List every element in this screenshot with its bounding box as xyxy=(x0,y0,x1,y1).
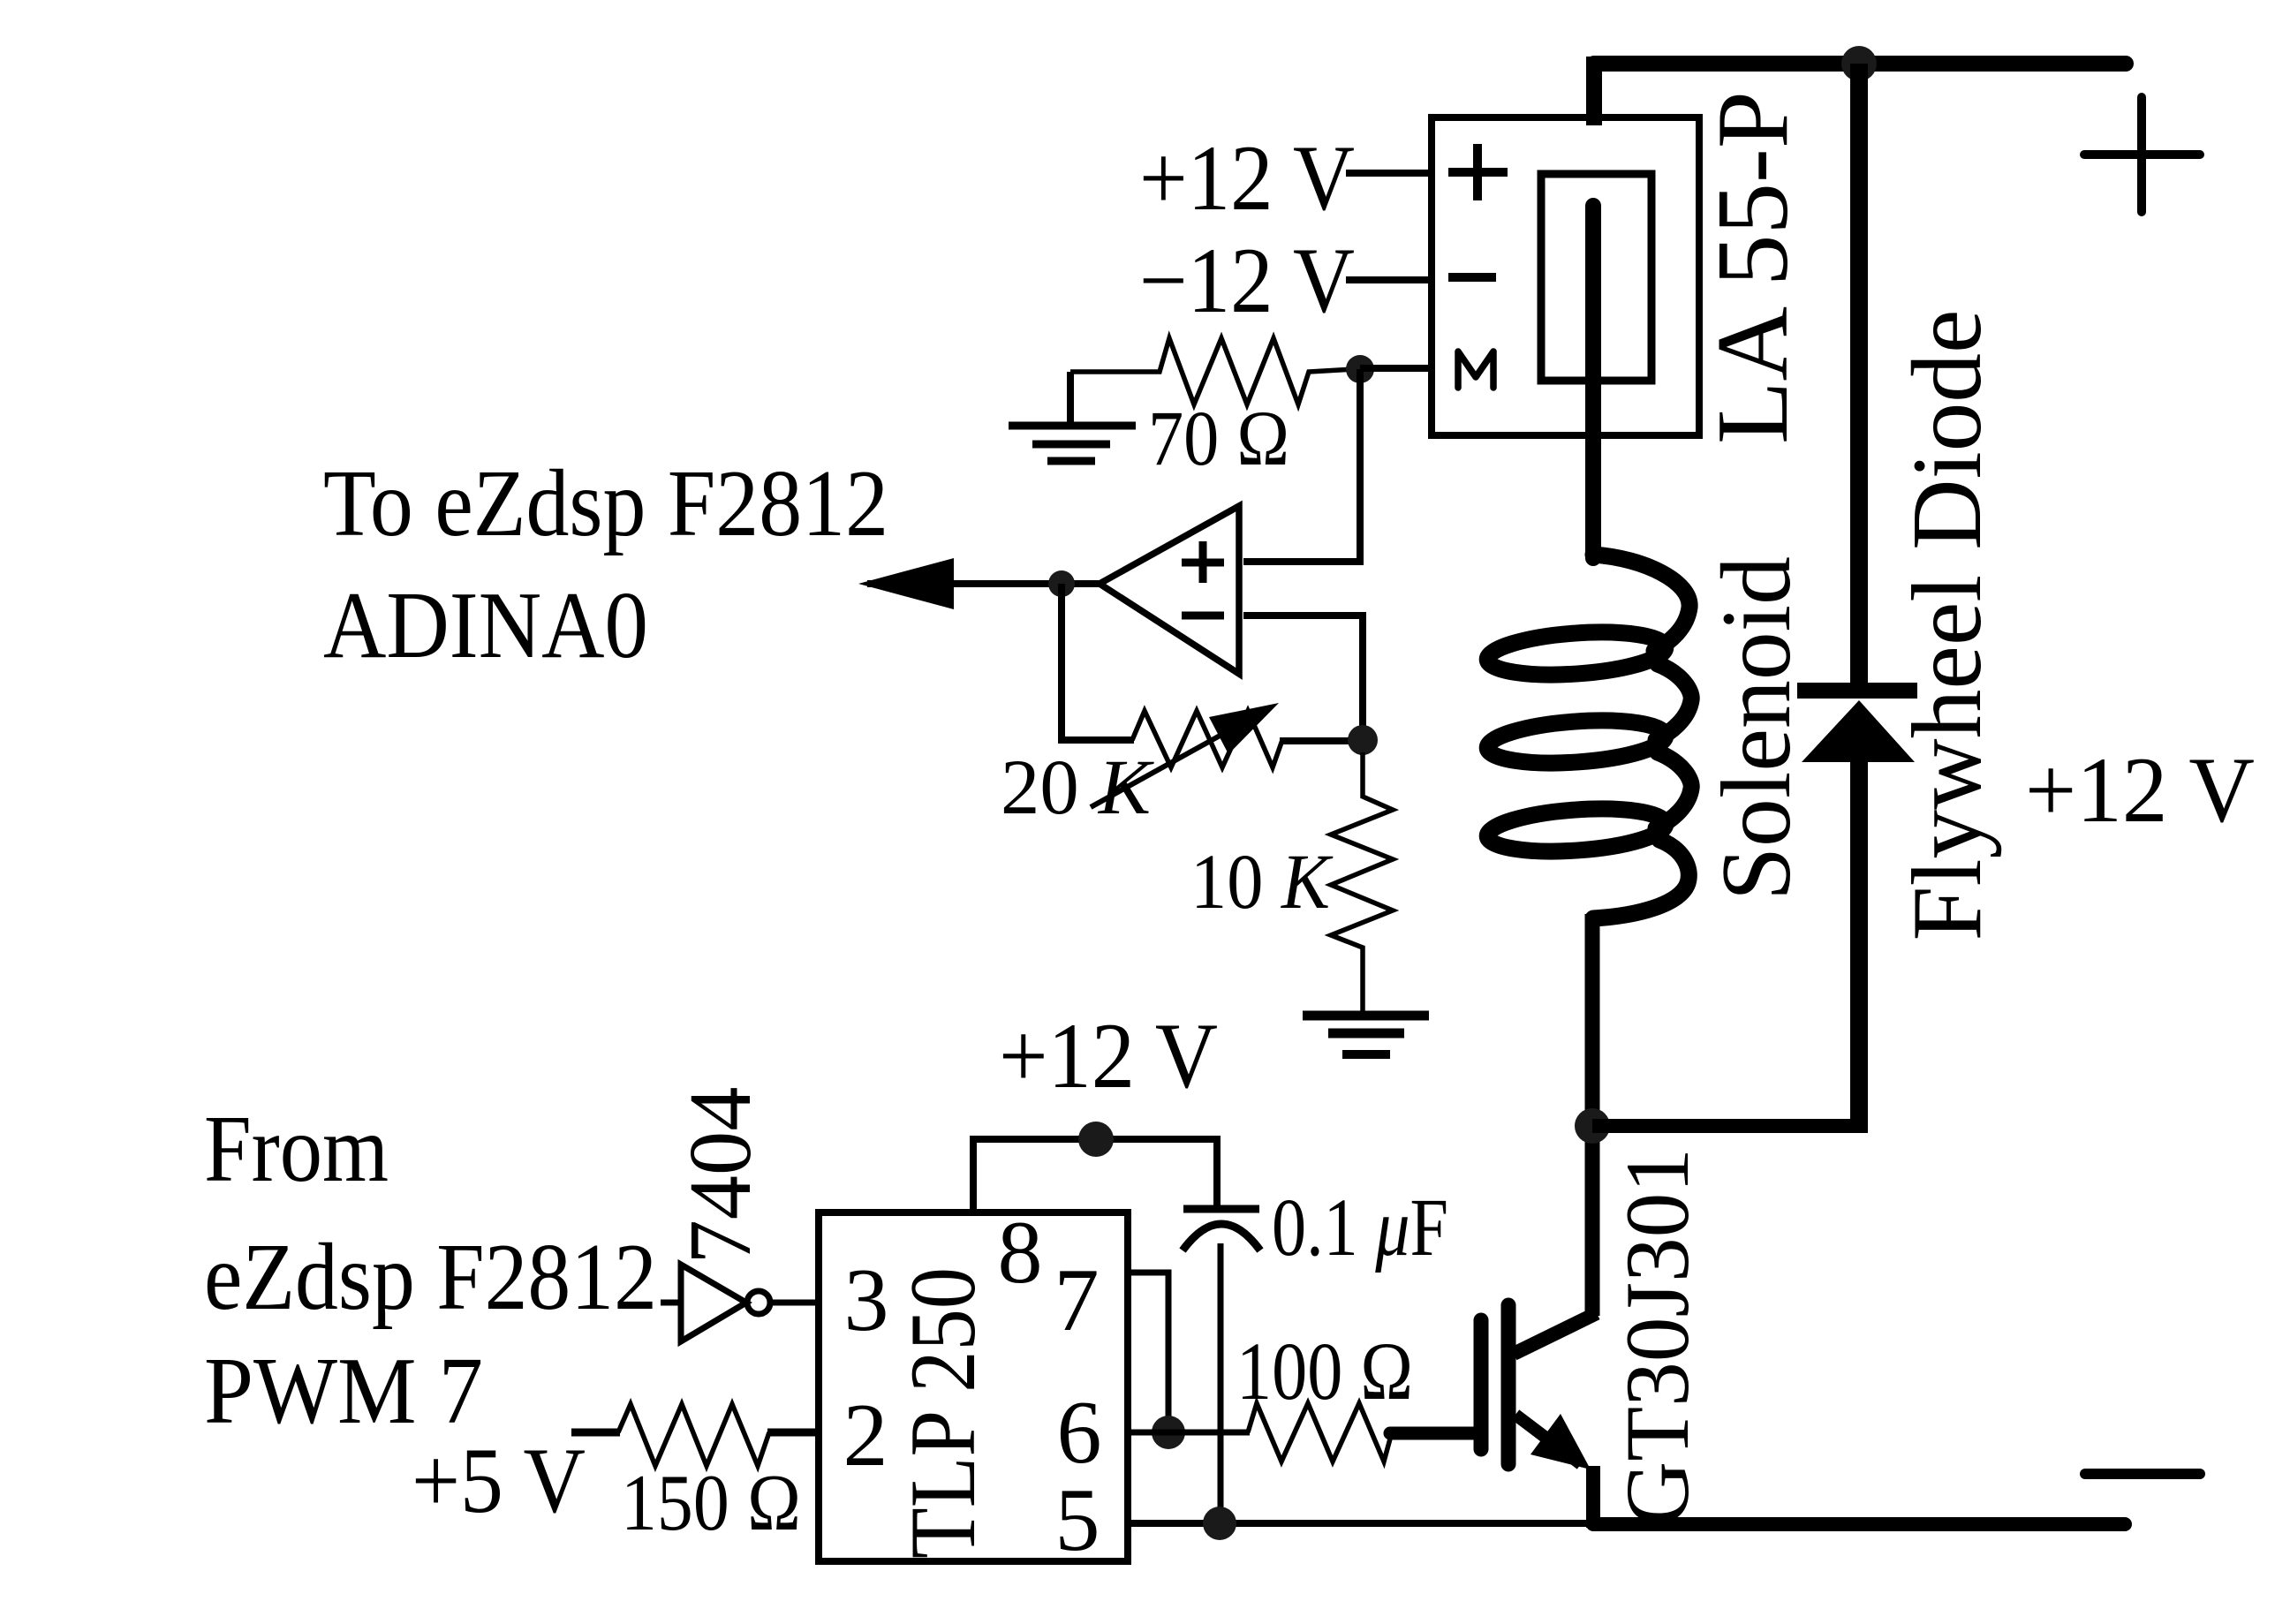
emitter arrowhead xyxy=(1530,1414,1591,1469)
node: junction dot on +12V wire xyxy=(1078,1122,1114,1157)
wire: +12V down to capacitor xyxy=(1213,1139,1221,1209)
ground (70 ohm) xyxy=(1067,372,1074,426)
node: junction dot at M terminal xyxy=(1346,355,1374,383)
transistor main bar xyxy=(1501,1305,1516,1464)
inverter 7404 triangle xyxy=(681,1265,746,1341)
svg-text:eZdsp F2812: eZdsp F2812 xyxy=(204,1225,657,1330)
node: output junction dot xyxy=(1048,570,1075,597)
SECTION: solenoid-diode xyxy=(1486,64,2255,1316)
svg-text:70 Ω: 70 Ω xyxy=(1148,396,1289,482)
wire: +12V to sensor xyxy=(1346,170,1432,177)
node: junction dot rail / flywheel diode xyxy=(1841,46,1877,81)
node: junction dot divider/wiper xyxy=(1348,725,1378,755)
current sensor LA 55-P inner window xyxy=(1541,174,1651,381)
svg-text:+12 V: +12 V xyxy=(2025,738,2255,842)
node: junction dot cap/pin5 xyxy=(1203,1507,1236,1540)
svg-text:TLP 250: TLP 250 xyxy=(891,1267,994,1559)
wire: M junction to sensor M pin xyxy=(1360,365,1432,372)
wire: pin 6 to gate resistor xyxy=(1128,1430,1250,1436)
resistor 100 ohm xyxy=(1248,1403,1392,1462)
op-amp U1 triangle xyxy=(1100,506,1239,674)
svg-text:From: From xyxy=(204,1097,389,1202)
arrowhead to ADC xyxy=(858,558,954,609)
SECTION: top rail xyxy=(1593,46,2200,1524)
svg-text:20 K: 20 K xyxy=(1001,744,1155,831)
svg-text:+5 V: +5 V xyxy=(412,1429,586,1532)
resistor 10K xyxy=(1331,752,1393,1013)
svg-text:GT30J301: GT30J301 xyxy=(1607,1148,1708,1526)
SECTION: la55p xyxy=(1009,91,1809,562)
svg-text:Solenoid: Solenoid xyxy=(1702,556,1811,901)
inductor: solenoid coil xyxy=(1486,555,1692,918)
resistor 150 ohm xyxy=(618,1404,769,1466)
wire: 150 ohm to pin 2 xyxy=(767,1429,819,1437)
op-amp - input mark xyxy=(1182,612,1224,620)
wire: junction to diode bottom xyxy=(1592,1119,1866,1133)
op-amp + input mark xyxy=(1182,559,1224,567)
wire: +12V down to pin8 (box top) xyxy=(970,1139,977,1216)
potentiometer 20K zigzag xyxy=(1132,711,1282,767)
node: junction dot pin6/pin7 xyxy=(1152,1416,1185,1449)
label: + terminal mark of LA55-P xyxy=(1448,168,1508,177)
svg-text:8: 8 xyxy=(998,1203,1043,1303)
wire: rail corner down to LA55-P box top xyxy=(1586,57,1602,125)
svg-text:To eZdsp F2812: To eZdsp F2812 xyxy=(323,451,888,556)
transistor gate bar xyxy=(1474,1320,1489,1449)
transistor emitter diagonal xyxy=(1515,1415,1581,1464)
wire: emitter down to bottom rail xyxy=(1586,1466,1600,1528)
inverter bubble xyxy=(747,1291,770,1314)
wire: op-amp output xyxy=(867,580,1100,587)
svg-text:6: 6 xyxy=(1057,1383,1102,1483)
wire: primary conductor through sensor xyxy=(1585,206,1601,558)
SECTION: opamp xyxy=(323,451,1429,1054)
wire: +12V supply rail over TLP xyxy=(970,1136,1221,1143)
svg-text:7: 7 xyxy=(1054,1250,1100,1350)
wire: -12V to sensor xyxy=(1346,276,1432,283)
svg-text:100 Ω: 100 Ω xyxy=(1236,1326,1413,1417)
svg-text:3: 3 xyxy=(844,1250,889,1350)
wire: pin 7 stub to pin 6 node xyxy=(1128,1273,1168,1424)
wire: M junction down to op-amp + input xyxy=(1243,369,1360,562)
wire: top positive rail xyxy=(1594,56,2126,72)
SECTION: tlp xyxy=(819,1004,1593,1570)
svg-text:7404: 7404 xyxy=(670,1087,769,1265)
opto-coupler U2 TLP 250 box xyxy=(819,1212,1128,1561)
minus terminal (supply -) xyxy=(2085,1469,2200,1479)
SECTION: lefttext xyxy=(204,1087,819,1548)
wire: gate lead xyxy=(1390,1427,1474,1440)
node: junction dot solenoid/diode/collector xyxy=(1575,1108,1610,1144)
svg-text:+12 V: +12 V xyxy=(999,1004,1218,1107)
ground (below 10K) xyxy=(1303,1011,1429,1021)
wire: capacitor bottom lead xyxy=(1218,1243,1224,1522)
wire: inverter output to pin 3 xyxy=(770,1300,819,1306)
capacitor C1 curved plate xyxy=(1183,1224,1260,1250)
svg-text:LA 55-P: LA 55-P xyxy=(1697,91,1809,444)
resistor 70 ohm xyxy=(1070,338,1355,404)
svg-text:5: 5 xyxy=(1055,1470,1100,1570)
svg-text:0.1 μF: 0.1 μF xyxy=(1272,1182,1448,1273)
SECTION: igbt xyxy=(1390,1148,1708,1528)
current sensor LA 55-P outer box xyxy=(1432,117,1699,435)
wire: pin 5 to emitter xyxy=(1128,1520,1593,1527)
flywheel diode D1 xyxy=(1797,683,1917,699)
svg-text:2: 2 xyxy=(843,1386,888,1485)
svg-text:10 K: 10 K xyxy=(1190,839,1334,925)
wire: feedback from output down to pot xyxy=(1062,584,1134,740)
svg-text:Flywheel Diode: Flywheel Diode xyxy=(1893,310,2002,941)
capacitor C1 0.1uF top plate xyxy=(1183,1205,1259,1213)
wire: flywheel diode branch vertical xyxy=(1850,64,1868,691)
wire: solenoid bottom to collector junction xyxy=(1585,914,1600,1316)
potentiometer arrow xyxy=(1091,721,1247,807)
plus terminal (supply +) xyxy=(2084,150,2200,159)
svg-text:−12 V: −12 V xyxy=(1139,229,1355,332)
svg-text:ADINA0: ADINA0 xyxy=(323,573,648,678)
wire: PWM input to inverter xyxy=(661,1300,681,1306)
wire: bottom rail xyxy=(1593,1517,2125,1531)
svg-text:+12 V: +12 V xyxy=(1139,126,1355,230)
svg-text:150 Ω: 150 Ω xyxy=(621,1458,801,1547)
transistor Q1 GT30J301 collector diagonal xyxy=(1514,1313,1597,1354)
wire: op-amp - input to divider node xyxy=(1243,616,1363,726)
label: - terminal mark of LA55-P xyxy=(1448,273,1496,282)
label: M terminal mark of LA55-P xyxy=(1458,351,1493,388)
wire: +5V lead xyxy=(571,1429,620,1437)
